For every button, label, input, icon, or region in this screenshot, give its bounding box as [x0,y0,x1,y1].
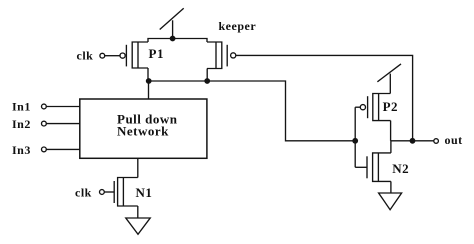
wire dynamic node rail [148,81,355,141]
wire P1 drain to dynamic rail [147,68,149,81]
svg-text:keeper: keeper [219,19,257,33]
svg-text:out: out [445,133,463,147]
wire clk to P1 gate [105,55,120,57]
transistor P1 [120,42,164,68]
wire N1 source to ground [137,206,139,218]
wire top rail (P1 source to keeper source) [148,39,207,43]
wire In2 [46,123,80,125]
In3 input terminal [12,143,46,157]
wire box bottom to N1 drain [137,158,139,177]
pull down network box [80,99,207,158]
transistor N1 [114,178,152,207]
node: supply junction dot [170,36,176,42]
svg-text:In3: In3 [12,143,31,157]
ground (below N1) [126,218,150,234]
svg-text:clk: clk [77,49,94,63]
svg-text:N2: N2 [392,161,409,176]
In2 input terminal [12,117,46,131]
wire keeper drain to dynamic rail [206,69,208,82]
out terminal [434,133,463,147]
svg-text:P2: P2 [383,99,398,114]
supply symbol (above P2) [377,64,401,94]
node: keeper drain junction dot [204,78,210,84]
node: inverter input junction dot [352,138,358,144]
wire dynamic rail to pull-down network [148,81,150,99]
transistor P2 [355,94,398,121]
wire In1 [46,106,80,108]
supply symbol (stub with slash) [160,8,184,38]
wire keeper gate feedback (to out node) [236,55,413,140]
wire N2 source to ground [390,181,392,193]
wire In3 [46,148,80,150]
node: out junction dot [410,138,416,144]
In1 input terminal [12,100,46,114]
svg-text:N1: N1 [136,185,153,200]
node: P1 drain junction dot [146,78,152,84]
wire inverter gate vertical [354,107,356,167]
svg-text:Network: Network [117,124,169,139]
clk input terminal (bottom) [75,186,104,200]
wire out line [391,140,434,142]
wire N2 drain to out line [390,141,392,153]
svg-text:In2: In2 [12,117,31,131]
wire P2 drain to out line [390,121,392,141]
svg-text:clk: clk [75,186,92,200]
transistor N2 [355,153,409,182]
wire clk to N1 gate [104,191,114,193]
clk input terminal (top) [77,49,105,63]
svg-text:In1: In1 [12,100,31,114]
svg-text:P1: P1 [149,46,164,61]
ground (below N2) [379,193,402,210]
transistor keeper (PMOS, mirrored) [207,19,256,69]
